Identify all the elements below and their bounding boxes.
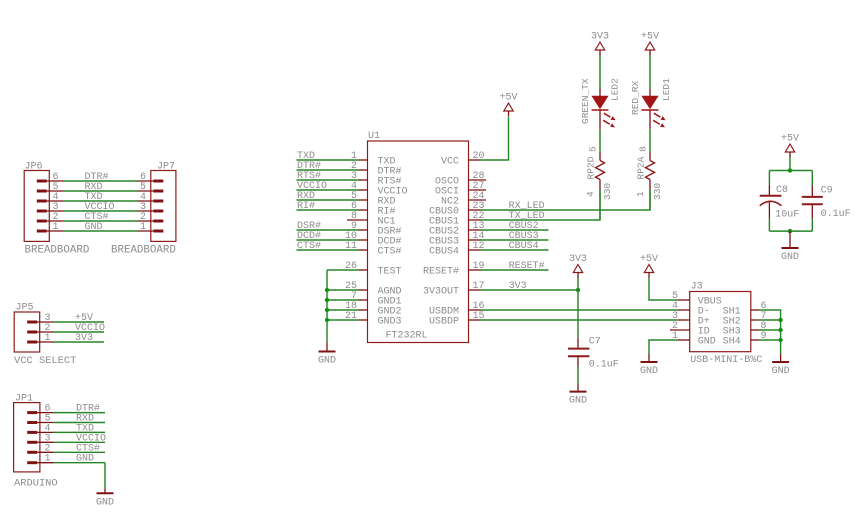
connector JP6: [24, 161, 89, 256]
wire C9 to bottom rail: [769, 219, 812, 231]
wire LED2 to RP2D: [599, 129, 601, 152]
svg-text:330: 330: [652, 183, 663, 200]
resistor RP2D 330: [585, 146, 613, 200]
ground below shield rail: [772, 354, 790, 377]
U1 pin 26 TEST: [345, 261, 402, 278]
3V3 supply above LED2: [591, 32, 609, 56]
U1 pin 11 CTS#: [345, 241, 402, 258]
wire GND JP6-JP7: [63, 222, 137, 233]
wire VCCIO from JP1: [54, 433, 106, 444]
svg-text:3V3: 3V3: [591, 32, 609, 43]
+5V supply above VBUS: [640, 254, 658, 278]
U1 pin 2 DTR#: [351, 161, 402, 178]
wire RXD JP6-JP7: [63, 182, 137, 193]
U1 pin 9 DSR#: [351, 221, 402, 238]
svg-text:RESET#: RESET#: [423, 267, 459, 278]
U1 pin 10 DCD#: [345, 231, 402, 248]
wire RP2D to TX_LED: [599, 190, 601, 220]
U1 pin 14 CBUS3: [429, 231, 485, 248]
U1 pin 15 USBDP: [429, 311, 485, 328]
connector JP7: [111, 161, 176, 256]
wire CTS# JP6-JP7: [63, 212, 137, 223]
U1 pin 23 CBUS0: [429, 201, 485, 218]
J3 pin 7 SH2: [723, 311, 767, 328]
svg-text:TEST: TEST: [378, 267, 402, 278]
svg-text:SH4: SH4: [723, 337, 741, 348]
wire GND from JP1: [54, 454, 105, 465]
svg-text:C7: C7: [589, 337, 601, 348]
JP6 pin numbers 6-1: [53, 172, 59, 233]
svg-text:GND: GND: [781, 252, 799, 263]
svg-text:CBUS4: CBUS4: [429, 247, 459, 258]
U1 pin 5 RXD: [351, 191, 396, 208]
JP7 pin numbers 6-1: [140, 172, 146, 233]
svg-text:GND: GND: [698, 337, 716, 348]
ground rail left of U1: [326, 270, 328, 343]
svg-text:0.1uF: 0.1uF: [589, 360, 619, 371]
wire net RTS# to U1 pin 3: [297, 171, 359, 182]
svg-text:LED2: LED2: [609, 78, 620, 101]
+5V supply above LED1: [641, 32, 659, 56]
J3 pin 2 ID: [670, 321, 710, 338]
svg-text:ARDUINO: ARDUINO: [14, 477, 58, 489]
svg-text:U1: U1: [368, 131, 380, 142]
U1 pin 6 RI#: [351, 201, 396, 218]
svg-text:+5V: +5V: [781, 134, 799, 145]
junction dot 3V3 node: [576, 288, 580, 292]
junction dot top of C8 C9: [788, 168, 792, 172]
wire RP2A to RX_LED: [649, 190, 651, 210]
J3 pin 9 SH4: [723, 331, 767, 348]
svg-text:GND: GND: [96, 497, 114, 508]
svg-text:GND: GND: [772, 366, 790, 377]
wire AGND to ground rail: [327, 289, 359, 291]
J3 pin 5 VBUS: [672, 291, 722, 308]
junction dots on ground rail: [325, 288, 329, 322]
wire net TXD to U1 pin 1: [297, 151, 359, 162]
wire GND2 to ground rail: [327, 309, 359, 311]
wire net CTS# to U1 pin 11: [297, 241, 359, 252]
wire 3V3 from JP5: [54, 333, 105, 344]
svg-text:1: 1: [53, 222, 59, 233]
wire +5V to VBUS: [649, 278, 677, 301]
wire net CBUS2: [481, 221, 549, 232]
U1 pin 17 3V3OUT: [423, 281, 485, 298]
svg-text:GND: GND: [640, 366, 658, 377]
svg-text:8: 8: [638, 146, 649, 152]
wire net VCCIO to U1 pin 4: [297, 181, 359, 192]
wire net RESET#: [481, 261, 549, 272]
U1 pin 24 NC2: [441, 191, 486, 208]
svg-text:3V3: 3V3: [509, 281, 527, 292]
wire net 3V3 from 3V3OUT: [481, 281, 579, 292]
ground below C7: [569, 384, 587, 407]
J3 pin 1 GND: [672, 331, 716, 348]
J3 pin 3 D+: [672, 311, 710, 328]
U1 pin 8 NC1: [347, 211, 396, 228]
wire J3 GND pin to ground: [649, 340, 677, 354]
wire TXD JP6-JP7: [63, 192, 137, 203]
svg-text:330: 330: [602, 183, 613, 200]
svg-text:1: 1: [140, 222, 146, 233]
svg-text:+5V: +5V: [641, 32, 659, 43]
svg-text:GREEN_TX: GREEN_TX: [580, 78, 591, 124]
J3 pin 4 D-: [672, 301, 710, 318]
wire net RI# to U1 pin 6: [297, 201, 359, 212]
capacitor C7 0.1uF: [568, 337, 619, 371]
U1 pin 13 CBUS2: [429, 221, 485, 238]
U1 pin 4 VCCIO: [351, 181, 408, 198]
U1 pin 3 RTS#: [351, 171, 402, 188]
U1 pin 22 CBUS1: [429, 211, 485, 228]
svg-text:3V3: 3V3: [75, 333, 93, 344]
wire net DTR# to U1 pin 2: [297, 161, 359, 172]
svg-text:1: 1: [45, 454, 51, 465]
wire net RX_LED: [481, 190, 651, 212]
wire LED1 to RP2A: [649, 129, 651, 152]
wire down to C8: [768, 171, 770, 185]
wire 3V3 to LED2: [599, 56, 601, 89]
svg-text:1: 1: [635, 191, 646, 197]
LED LED1 RED_RX: [630, 78, 672, 129]
wire C8 to bottom rail: [768, 219, 770, 231]
svg-text:BREADBOARD: BREADBOARD: [25, 244, 90, 256]
U1 pin 1 TXD: [351, 151, 396, 168]
resistor RP2A 330: [635, 146, 663, 200]
U1 pin 27 OSCI: [435, 181, 486, 198]
wire net RXD to U1 pin 5: [297, 191, 359, 202]
ground below U1 rail: [318, 343, 336, 367]
svg-text:GND: GND: [569, 396, 587, 407]
capacitor C8 10uF polarized: [760, 185, 800, 221]
svg-text:JP7: JP7: [157, 161, 175, 172]
wire net CBUS4: [481, 241, 549, 252]
wire CTS# from JP1: [54, 443, 105, 454]
connector JP5: [14, 303, 76, 368]
connector J3 USB-MINI-B: [690, 281, 763, 366]
wire +5V to LED1: [649, 56, 651, 89]
svg-text:3V3OUT: 3V3OUT: [423, 287, 459, 298]
svg-text:CTS#: CTS#: [297, 241, 321, 252]
connector JP1: [14, 393, 58, 489]
wire DTR# from JP1: [54, 404, 105, 415]
U1 pin 12 CBUS4: [429, 241, 485, 258]
wire net USBDP: [481, 319, 678, 321]
U1 pin 7 GND1: [351, 291, 402, 308]
svg-text:10uF: 10uF: [775, 210, 799, 221]
wire DTR# JP6-JP7: [63, 172, 137, 183]
svg-text:J3: J3: [691, 281, 703, 292]
svg-text:5: 5: [588, 146, 599, 152]
U1 pin 16 USBDM: [429, 301, 485, 318]
svg-text:JP5: JP5: [16, 303, 34, 314]
wire C7 to ground: [577, 367, 579, 384]
svg-text:3V3: 3V3: [569, 254, 587, 265]
svg-text:CTS#: CTS#: [76, 443, 100, 454]
svg-text:2: 2: [45, 443, 51, 454]
svg-text:USBDP: USBDP: [429, 317, 459, 328]
svg-text:VCC: VCC: [441, 157, 459, 168]
ground below J3 GND pin: [640, 354, 658, 377]
wire net USBDM: [481, 309, 678, 311]
wire VCCIO JP6-JP7: [63, 202, 137, 213]
wire 3V3 vertical to C7: [577, 278, 579, 338]
svg-text:JP1: JP1: [15, 393, 33, 404]
3V3 supply above C7: [569, 254, 587, 278]
wire VCC to +5V: [481, 117, 509, 160]
junction dot bottom of C8 C9: [788, 229, 792, 233]
svg-text:+5V: +5V: [499, 93, 517, 104]
wire VCCIO from JP5: [54, 323, 106, 334]
JP1 pin numbers 6-1: [45, 404, 51, 465]
wire net CBUS3: [481, 231, 549, 242]
U1 pin 21 GND3: [345, 311, 402, 328]
U1 pin 19 RESET#: [423, 261, 485, 278]
IC U1 FT232RL box: [368, 131, 469, 343]
svg-text:BREADBOARD: BREADBOARD: [111, 244, 176, 256]
JP5 pin numbers 3-1: [45, 313, 51, 344]
svg-text:RED_RX: RED_RX: [630, 80, 641, 115]
ground below JP1: [96, 488, 114, 508]
wire GND3 to ground rail: [327, 319, 359, 321]
J3 pin 6 SH1: [723, 301, 767, 318]
svg-text:RP2D: RP2D: [585, 156, 596, 179]
svg-text:+5V: +5V: [640, 254, 658, 265]
U1 pin 18 GND2: [345, 301, 402, 318]
wire TEST to ground rail: [327, 269, 359, 271]
wire JP1 GND down: [104, 463, 106, 489]
U1 pin 25 AGND: [345, 281, 402, 298]
svg-text:GND: GND: [85, 222, 103, 233]
wire RXD from JP1: [54, 414, 105, 425]
svg-text:CTS#: CTS#: [378, 247, 402, 258]
wire GND1 to ground rail: [327, 299, 359, 301]
svg-text:1: 1: [45, 333, 51, 344]
wire net TX_LED: [481, 190, 601, 222]
svg-text:RP2A: RP2A: [635, 156, 646, 179]
svg-text:GND: GND: [76, 454, 94, 465]
svg-text:JP6: JP6: [25, 161, 43, 172]
ground below C8 C9: [781, 231, 799, 263]
wire TXD from JP1: [54, 423, 105, 434]
U1 pin 20 VCC: [441, 151, 485, 168]
svg-text:GND: GND: [318, 356, 336, 367]
wire net DSR# to U1 pin 9: [297, 221, 359, 232]
svg-text:RESET#: RESET#: [509, 261, 545, 272]
svg-text:RI#: RI#: [297, 201, 315, 212]
svg-text:USB-MINI-B%C: USB-MINI-B%C: [690, 355, 762, 366]
svg-text:GND3: GND3: [378, 317, 402, 328]
+5V supply above C8 C9: [781, 134, 799, 158]
wire J3 shield rail: [759, 310, 780, 354]
+5V supply above U1: [499, 93, 517, 117]
svg-text:VCC SELECT: VCC SELECT: [14, 355, 76, 367]
wire down to C9: [811, 171, 813, 186]
J3 pin 8 SH3: [723, 321, 767, 338]
capacitor C9 0.1uF: [802, 185, 851, 220]
svg-text:C9: C9: [821, 185, 833, 196]
svg-text:0.1uF: 0.1uF: [821, 209, 851, 220]
svg-text:4: 4: [585, 191, 596, 197]
wire +5V to C8 C9 top rail: [769, 157, 812, 171]
wire +5V from JP5: [54, 313, 105, 324]
junction dots on shield rail: [778, 318, 782, 342]
svg-text:FT232RL: FT232RL: [386, 331, 428, 342]
U1 pin 28 OSCO: [435, 171, 486, 188]
svg-text:C8: C8: [776, 185, 788, 196]
svg-text:CBUS4: CBUS4: [509, 241, 539, 252]
svg-text:LED1: LED1: [661, 78, 672, 101]
wire net DCD# to U1 pin 10: [297, 231, 359, 242]
LED LED2 GREEN_TX: [580, 78, 621, 129]
